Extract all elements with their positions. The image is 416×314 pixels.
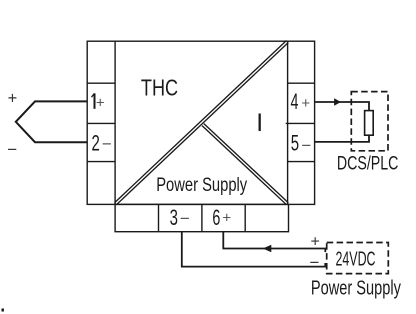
svg-text:DCS/PLC: DCS/PLC [337,154,399,175]
svg-text:I: I [256,110,263,137]
svg-text:4: 4 [290,89,298,114]
terminal 5 digit [291,130,299,155]
wire 5- to load resistor [315,135,369,142]
right column cell dividers [286,83,315,161]
DCS/PLC dashed box [351,92,388,151]
svg-text:3: 3 [170,205,178,230]
svg-text:5: 5 [291,130,299,155]
transmitter outer box [87,41,314,204]
left column cell dividers [87,83,115,161]
svg-text:Power Supply: Power Supply [156,174,247,196]
bottom terminal row [115,204,288,231]
wire 4+ to load resistor [315,102,369,111]
svg-text:2: 2 [91,131,99,156]
svg-text:+: + [311,234,320,251]
svg-text:6: 6 [212,205,220,230]
svg-text:−: − [301,136,311,155]
svg-text:Power Supply: Power Supply [311,278,401,300]
svg-text:+: + [301,95,310,112]
svg-text:−: − [180,209,190,228]
svg-text:+: + [222,209,231,226]
thermocouple input symbol [16,101,87,142]
terminal 3 digit [170,205,178,230]
terminal 6 digit [212,205,220,230]
terminal 4 digit [290,89,298,114]
terminal 1 digit [92,93,95,109]
arrow on 6+ wire [263,245,272,253]
stray dot bottom-left [2,309,4,312]
wire 3- to power supply minus [182,232,325,267]
svg-text:−: − [310,253,320,272]
24VDC dashed box [327,243,389,274]
arrow on 4+ wire [334,98,341,106]
diagonal divider A (double line, bottom-left to top-right) [115,41,289,205]
right terminal column separator [287,41,289,204]
svg-text:−: − [7,140,17,159]
wire 6+ to power supply plus [223,232,325,252]
svg-text:THC: THC [141,74,178,100]
load resistor (DCS/PLC input) [365,111,374,136]
svg-text:+: + [96,94,105,111]
diagonal divider B (double line, center to bottom-right) [202,124,288,205]
terminal 2 digit [91,131,99,156]
svg-text:+: + [8,89,18,107]
left terminal column separator [114,41,116,204]
svg-text:−: − [102,135,112,154]
svg-text:24VDC: 24VDC [336,248,376,271]
